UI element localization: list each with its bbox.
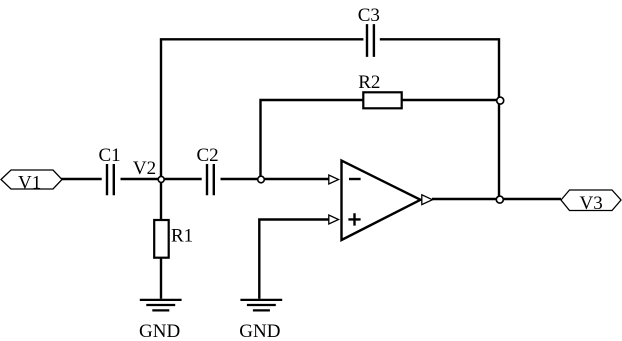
svg-text:R2: R2: [358, 72, 380, 93]
svg-text:C3: C3: [358, 5, 380, 26]
svg-text:V1: V1: [18, 172, 41, 193]
svg-text:V3: V3: [580, 193, 603, 214]
svg-text:V2: V2: [133, 158, 156, 179]
svg-text:C2: C2: [197, 145, 219, 166]
svg-text:GND: GND: [139, 321, 180, 341]
svg-text:R1: R1: [171, 225, 193, 246]
svg-text:C1: C1: [99, 145, 121, 166]
svg-text:GND: GND: [239, 321, 280, 341]
